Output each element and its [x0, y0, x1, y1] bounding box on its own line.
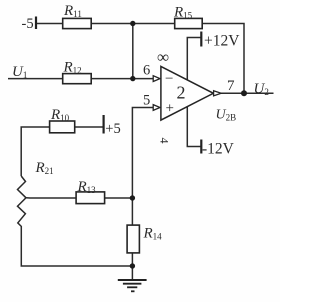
svg-text:+5: +5 — [105, 121, 120, 137]
svg-text:-5: -5 — [22, 16, 34, 32]
svg-text:2: 2 — [177, 83, 186, 103]
svg-text:+12V: +12V — [204, 32, 240, 49]
svg-text:6: 6 — [143, 63, 150, 79]
svg-text:-12V: -12V — [202, 140, 235, 157]
svg-text:∞: ∞ — [157, 48, 169, 67]
svg-text:7: 7 — [227, 78, 235, 94]
svg-text:4: 4 — [158, 138, 172, 144]
svg-text:−: − — [165, 71, 173, 87]
svg-text:5: 5 — [143, 92, 150, 108]
svg-text:+: + — [166, 101, 174, 117]
